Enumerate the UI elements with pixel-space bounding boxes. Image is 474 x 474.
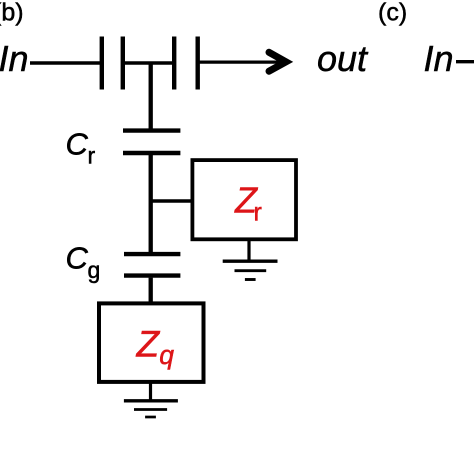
- impedance box Zq: [99, 303, 204, 382]
- arrowhead out: [269, 52, 286, 71]
- svg-text:In: In: [0, 38, 29, 79]
- ground (Zq): [124, 399, 178, 402]
- svg-text:(c): (c): [378, 0, 407, 27]
- svg-text:g: g: [88, 257, 101, 283]
- svg-text:C: C: [66, 126, 89, 161]
- impedance box Zr: [192, 160, 296, 239]
- svg-text:In: In: [424, 38, 454, 79]
- svg-text:out: out: [317, 38, 369, 79]
- ground (Zr): [223, 260, 278, 263]
- svg-text:q: q: [159, 340, 174, 370]
- capacitor Cr bottom plate: [123, 151, 180, 155]
- capacitor C2 (series output cap, left plate): [172, 37, 176, 90]
- wire In to C1: [30, 61, 100, 64]
- capacitor Cg bottom plate: [124, 273, 180, 277]
- wire Cg to Zq box: [149, 278, 153, 304]
- wire Zq box to ground: [149, 383, 152, 401]
- capacitor C1 right plate: [121, 37, 125, 90]
- svg-text:C: C: [66, 241, 89, 276]
- capacitor C2 right plate: [195, 37, 199, 90]
- svg-text:r: r: [88, 143, 96, 169]
- svg-text:(b): (b): [0, 0, 24, 27]
- wire junction down from top rail: [149, 63, 153, 129]
- capacitor C1 (series input cap, left plate): [100, 37, 104, 90]
- wire C1 to C2: [123, 61, 174, 64]
- wire Cr to Cg trunk: [149, 155, 153, 252]
- wire panel c stub: [456, 60, 474, 63]
- capacitor Cr top plate: [123, 128, 180, 132]
- svg-text:Z: Z: [136, 324, 161, 365]
- svg-text:r: r: [254, 199, 262, 227]
- capacitor Cg top plate: [124, 252, 180, 256]
- wire branch to Zr: [149, 199, 192, 203]
- wire Zr box to ground: [247, 240, 250, 261]
- wire C2 to out arrow: [198, 60, 284, 63]
